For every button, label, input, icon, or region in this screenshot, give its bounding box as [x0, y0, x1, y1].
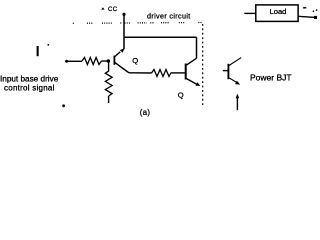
- transistor Q1: [114, 48, 129, 73]
- wire into load box: [244, 12, 256, 14]
- wire Vcc horizontal rail: [124, 36, 197, 38]
- node input terminal top: [65, 60, 68, 63]
- resistor R-base (input series): [82, 58, 102, 65]
- svg-text:Q: Q: [178, 90, 184, 99]
- label +Vcc: [101, 7, 118, 13]
- svg-text:Input base drive: Input base drive: [0, 75, 59, 84]
- load box: [256, 5, 298, 22]
- node input terminal bottom: [62, 104, 65, 107]
- svg-text:control signal: control signal: [4, 84, 55, 93]
- svg-text:Power BJT: Power BJT: [250, 72, 292, 82]
- label supply polarity marks: [303, 7, 317, 12]
- transistor Q2: [186, 58, 201, 86]
- svg-text:(a): (a): [140, 108, 151, 117]
- wire resistor to node: [102, 60, 107, 62]
- resistor R2 (series to Q2 base): [152, 70, 171, 77]
- resistor R1 (pull-down vertical): [105, 71, 112, 96]
- annotation arrow pointing up at power BJT: [236, 94, 240, 111]
- svg-text:driver circuit: driver circuit: [147, 12, 191, 21]
- svg-text:Load: Load: [270, 7, 287, 16]
- wire R2 to Q2 base: [171, 72, 185, 74]
- node base junction: [107, 59, 111, 63]
- pulse waveform symbol: [37, 44, 50, 56]
- wire input to resistor: [67, 60, 82, 62]
- node supply terminal: [314, 16, 317, 19]
- wire R1 bottom stub: [108, 96, 110, 103]
- wire Vcc vertical rail: [123, 14, 125, 49]
- dashed box right edge: [202, 24, 204, 106]
- wire load box to supply terminal: [298, 16, 315, 17]
- wire rail drop to Q2 collector: [196, 37, 198, 58]
- wire Q1 emitter to R2: [129, 72, 152, 74]
- svg-text:CC: CC: [108, 7, 118, 13]
- transistor power BJT symbol: [223, 58, 241, 85]
- svg-text:Q: Q: [132, 56, 138, 65]
- wire node down: [108, 63, 110, 72]
- node Vcc terminal dot: [122, 13, 125, 16]
- dashed box top edge: [73, 22, 203, 25]
